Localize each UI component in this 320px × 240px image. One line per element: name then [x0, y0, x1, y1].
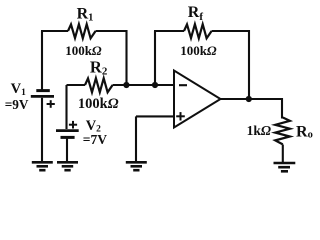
wire R1 top row left segment	[41, 30, 68, 32]
wire Ro bottom vertical	[282, 145, 284, 163]
resistor Rf	[184, 24, 212, 38]
wire R1 top row right segment	[96, 30, 127, 32]
svg-text:Ro: Ro	[296, 124, 313, 141]
svg-text:=9V: =9V	[5, 98, 29, 113]
wire R2 row right segment to op-amp	[113, 84, 174, 86]
ground of op-amp plus input	[126, 162, 147, 170]
ground of V2	[57, 162, 78, 170]
resistor R2	[85, 78, 113, 92]
svg-text:Rf: Rf	[188, 4, 204, 23]
node summing junction dot 2	[152, 82, 158, 88]
svg-text:100kΩ: 100kΩ	[180, 43, 217, 58]
svg-text:100kΩ: 100kΩ	[78, 96, 119, 112]
wire op-amp plus input horizontal	[136, 115, 174, 117]
op-amp minus input sign	[179, 84, 187, 86]
op-amp plus input sign	[176, 112, 185, 120]
resistor R1	[68, 24, 96, 38]
battery V1	[31, 91, 54, 97]
wire R2 left corner vertical to V2	[65, 85, 67, 129]
plus sign of V1	[47, 100, 55, 108]
node summing junction dot 1	[123, 82, 129, 88]
wire V2 bottom vertical	[66, 139, 68, 162]
svg-text:V1: V1	[11, 81, 26, 98]
op-amp U1	[174, 71, 221, 128]
svg-text:R1: R1	[77, 6, 94, 24]
svg-text:R2: R2	[90, 57, 108, 77]
wire output horizontal	[221, 98, 283, 100]
wire Rf top row left segment	[154, 30, 184, 32]
plus sign of V2	[69, 121, 77, 129]
wire Rf top row right segment	[212, 30, 249, 32]
wire V1 bottom vertical	[41, 98, 43, 162]
svg-text:1kΩ: 1kΩ	[247, 123, 271, 138]
wire V1 top vertical	[41, 31, 43, 90]
resistor Ro	[275, 118, 290, 145]
wire R2 row left segment	[67, 84, 86, 86]
wire op-amp plus input vertical to ground	[135, 116, 137, 161]
ground of Ro	[274, 163, 296, 171]
node output junction dot	[246, 96, 252, 102]
wire Rf right vertical down to output	[248, 30, 250, 99]
svg-text:=7V: =7V	[83, 133, 107, 148]
wire R1 right vertical down to summing node	[125, 30, 127, 85]
wire output corner vertical to Ro	[281, 98, 283, 119]
ground of V1	[32, 162, 53, 170]
battery V2	[56, 131, 79, 138]
svg-text:100kΩ: 100kΩ	[65, 43, 102, 58]
wire Rf left vertical	[154, 31, 156, 85]
